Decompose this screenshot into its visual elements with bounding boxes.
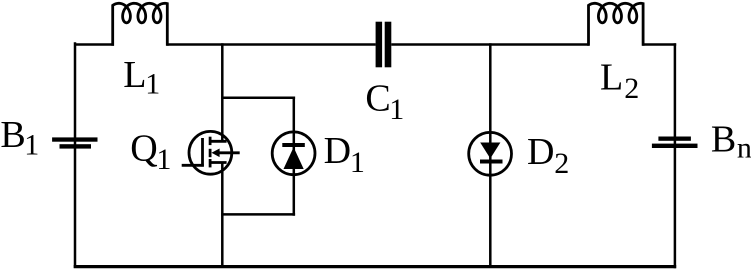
Q1 channel segment bottom xyxy=(209,159,212,167)
capacitor C1 xyxy=(376,22,392,68)
diode D1 xyxy=(272,132,315,175)
wire top right of C1 xyxy=(391,43,589,46)
inductor L2 xyxy=(589,3,644,46)
svg-text:1: 1 xyxy=(24,129,39,162)
D2 cathode bar xyxy=(480,160,503,164)
wire Q1 source vertical xyxy=(221,163,224,268)
wire D2 branch vertical xyxy=(489,43,492,268)
D1 triangle xyxy=(284,147,304,169)
svg-text:D: D xyxy=(527,131,554,173)
D2 triangle xyxy=(480,143,500,159)
wire D1 loop top xyxy=(221,97,295,100)
wire right vertical (Bn branch) xyxy=(674,43,677,268)
svg-text:Q: Q xyxy=(130,127,157,169)
D1 cathode bar xyxy=(282,143,305,147)
Q1 channel segment middle xyxy=(209,149,212,157)
svg-text:L: L xyxy=(123,54,146,96)
svg-text:1: 1 xyxy=(389,93,404,126)
wire D1 loop bottom xyxy=(221,213,295,216)
svg-text:D: D xyxy=(324,130,351,172)
battery B1 xyxy=(52,137,97,148)
Q1 source stub xyxy=(210,161,227,164)
wire bottom horizontal xyxy=(74,265,677,268)
transistor Q1 xyxy=(182,131,240,174)
wire left vertical (B1 branch) xyxy=(74,42,77,268)
wire top middle (L1 to C1) xyxy=(167,43,376,46)
inductor L1 xyxy=(113,3,168,46)
svg-text:2: 2 xyxy=(624,72,639,105)
svg-text:B: B xyxy=(711,118,736,160)
svg-text:B: B xyxy=(0,114,25,156)
wire D1 branch vertical xyxy=(293,97,296,216)
wire L2 to top-right corner xyxy=(642,43,676,46)
svg-text:C: C xyxy=(365,77,390,119)
Q1 body arrow xyxy=(212,149,220,158)
svg-text:1: 1 xyxy=(350,146,365,179)
Q1 gate bar xyxy=(201,138,204,167)
wire top-left horizontal xyxy=(75,43,114,46)
svg-text:1: 1 xyxy=(145,67,160,100)
Q1 channel segment top xyxy=(209,137,212,145)
Q1 gate lead xyxy=(182,164,204,167)
diode D2 xyxy=(469,132,512,175)
svg-text:L: L xyxy=(600,56,623,98)
wire Q1 drain vertical xyxy=(221,43,224,141)
battery Bn xyxy=(652,137,698,149)
Q1 drain stub xyxy=(210,140,227,143)
svg-text:1: 1 xyxy=(156,143,171,176)
svg-text:n: n xyxy=(737,132,751,165)
svg-text:2: 2 xyxy=(554,147,569,180)
Q1 body lead xyxy=(219,151,240,154)
